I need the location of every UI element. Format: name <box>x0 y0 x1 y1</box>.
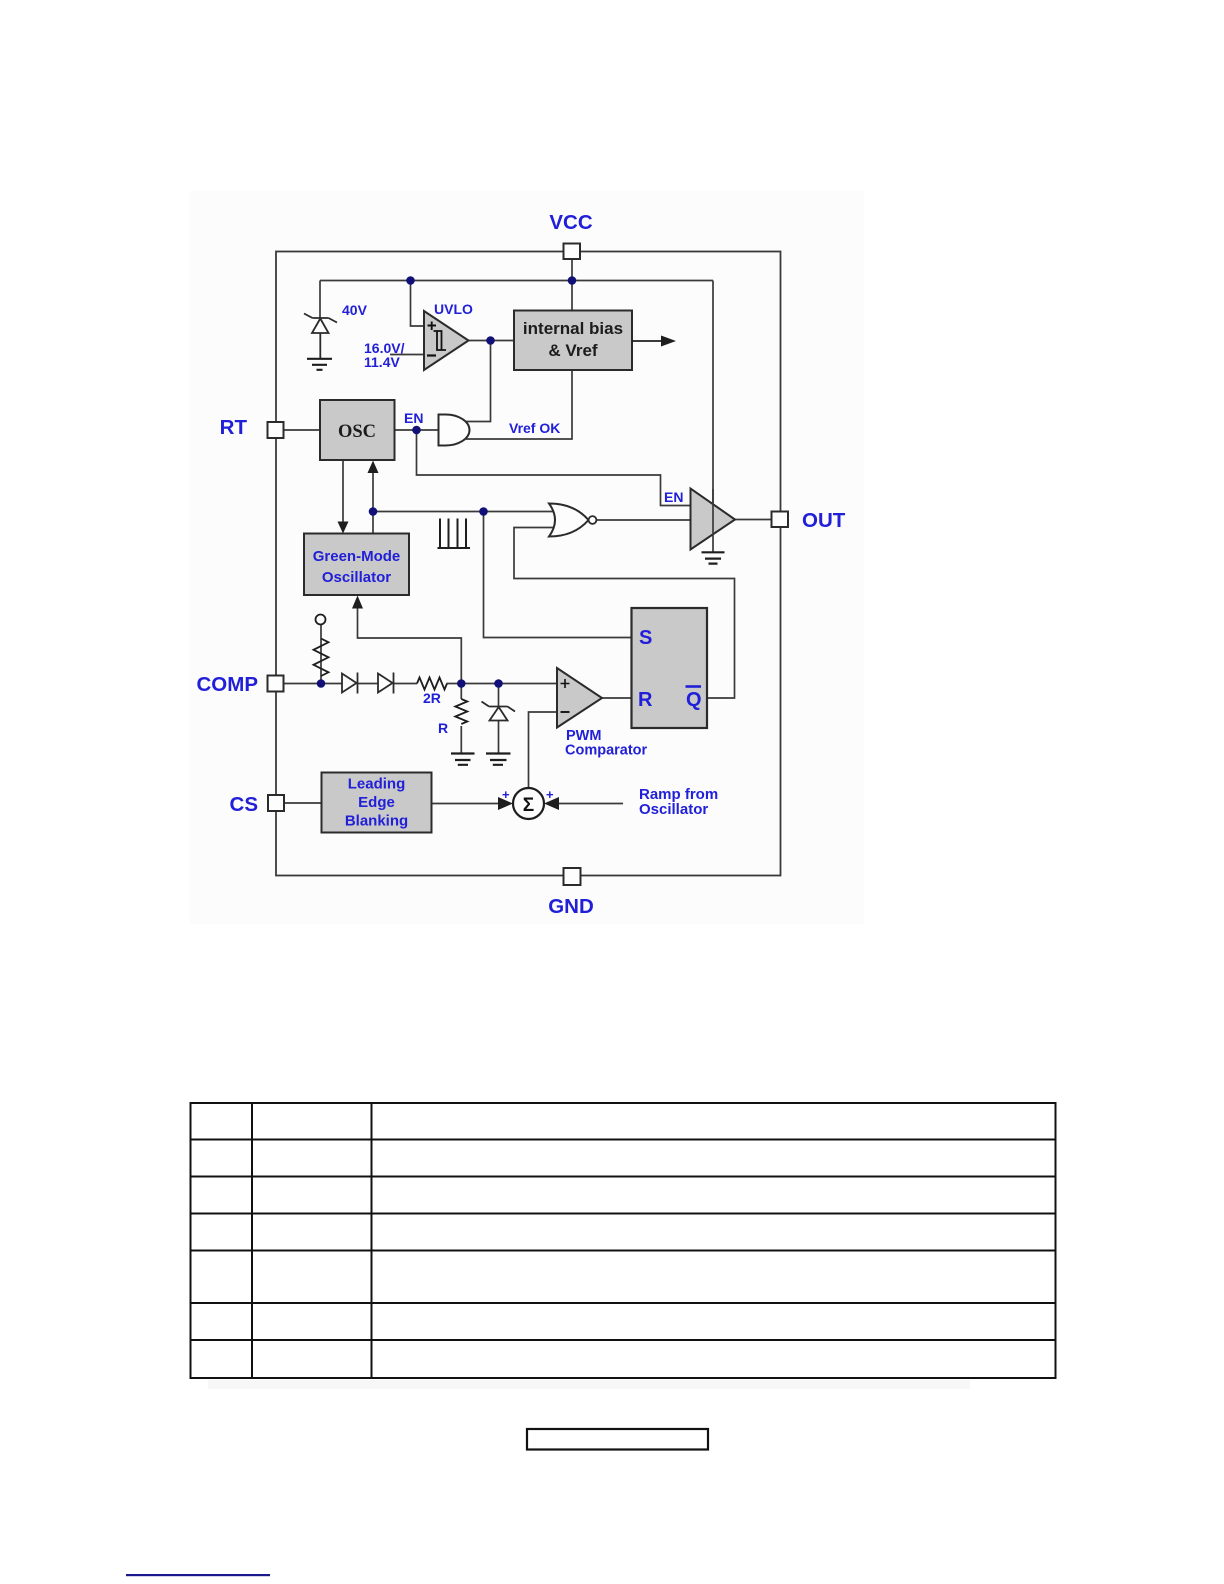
svg-text:S: S <box>639 627 652 649</box>
svg-text:Comparator: Comparator <box>565 743 648 759</box>
wire LEB output to summer <box>432 803 501 805</box>
footer rule <box>126 1574 270 1576</box>
wire NOR output to driver <box>597 519 691 521</box>
wire UVLO plus input <box>411 281 425 327</box>
wire diode to 2R <box>394 683 418 685</box>
node at zener/UVLO rail <box>406 276 415 285</box>
ground below driver <box>702 552 725 563</box>
internal bias & Vref block <box>514 311 632 371</box>
arrowhead into summer right <box>544 797 559 810</box>
pin COMP <box>197 673 284 696</box>
svg-text:11.4V: 11.4V <box>364 354 400 370</box>
summer sigma node <box>513 788 544 819</box>
svg-text:Q: Q <box>686 689 702 711</box>
wire 2R node to PWM plus input <box>447 683 558 685</box>
pin CS <box>230 793 284 816</box>
svg-text:OUT: OUT <box>802 509 846 532</box>
svg-text:EN: EN <box>664 489 683 505</box>
ground below 40V zener <box>307 359 332 370</box>
arrowhead OSC to green-mode <box>338 522 349 534</box>
wire node to latch S input <box>484 512 632 638</box>
wire clock node to NOR gate <box>373 511 556 513</box>
wire R resistor stems <box>460 684 462 754</box>
footer box <box>527 1429 708 1450</box>
wire driver ground stem <box>712 535 714 552</box>
pull-up terminal circle <box>316 615 326 625</box>
op-amp PWM comparator <box>557 668 602 728</box>
wire Qbar feedback to NOR input <box>514 528 735 699</box>
wire EN to output driver <box>417 430 691 506</box>
diode D2 <box>378 673 394 694</box>
wire comp pull-up stem <box>320 625 322 684</box>
pin GND <box>548 868 594 918</box>
resistor 2R <box>417 678 447 690</box>
wire node up to green-mode oscillator arrow <box>358 608 462 684</box>
AND gate (mirrored) <box>439 415 470 446</box>
svg-text:Leading: Leading <box>348 776 406 793</box>
svg-text:GND: GND <box>548 895 594 918</box>
ground below zener clamp <box>486 754 511 765</box>
svg-text:R: R <box>438 720 448 736</box>
pin RT <box>220 416 284 439</box>
Green-Mode Oscillator block <box>304 534 409 596</box>
svg-text:Green-Mode: Green-Mode <box>313 548 401 565</box>
svg-text:+: + <box>546 787 554 802</box>
svg-text:internal bias: internal bias <box>523 319 623 338</box>
op-amp UVLO comparator <box>424 311 469 370</box>
arrowhead into summer left <box>498 797 513 810</box>
wire ramp from oscillator to summer <box>558 803 623 805</box>
arrowhead into green-mode bottom <box>352 596 363 609</box>
wire UVLO output to bias box <box>469 340 515 342</box>
ground below R <box>451 754 475 765</box>
node 2R-R <box>457 679 466 688</box>
SR latch U2 <box>632 608 708 728</box>
junction dots <box>317 276 577 688</box>
svg-text:Vref OK: Vref OK <box>509 420 560 436</box>
node EN <box>412 426 421 435</box>
node zener clamp <box>494 679 503 688</box>
diagram background <box>190 191 864 924</box>
wire VCC top rail <box>320 259 713 535</box>
output driver buffer <box>691 489 736 550</box>
zener clamp diode <box>482 702 516 721</box>
OSC block <box>320 400 395 460</box>
svg-text:2R: 2R <box>423 690 441 706</box>
svg-text:Oscillator: Oscillator <box>322 569 391 586</box>
resistor R <box>455 699 467 724</box>
node clock right <box>479 507 488 516</box>
wire UVLO output down to AND gate <box>466 341 491 422</box>
wire OSC to green-mode oscillator <box>342 460 344 522</box>
diode D1 <box>342 673 358 694</box>
wire PWM minus input from summer <box>529 712 558 788</box>
wire zener clamp stems <box>498 684 500 754</box>
wire Vref OK <box>466 370 572 439</box>
zener diode 40V <box>304 314 337 359</box>
node at UVLO output <box>486 336 495 345</box>
wire RT to OSC <box>284 429 321 431</box>
svg-text:Oscillator: Oscillator <box>639 801 708 818</box>
wire diode link <box>358 683 379 685</box>
Leading Edge Blanking block <box>322 773 432 833</box>
wire CS to LEB <box>284 802 322 804</box>
node clock left <box>369 507 378 516</box>
wire zener 40V branch <box>319 281 321 319</box>
svg-text:Blanking: Blanking <box>345 813 408 830</box>
node COMP <box>317 679 326 688</box>
svg-text:40V: 40V <box>342 302 368 318</box>
NOR gate <box>549 504 596 537</box>
svg-text:OSC: OSC <box>338 422 376 442</box>
wire UVLO minus input <box>390 354 424 356</box>
svg-text:CS: CS <box>230 793 258 816</box>
pulse train symbol <box>438 519 471 549</box>
svg-text:UVLO: UVLO <box>434 301 473 317</box>
wire PWM output to latch R <box>602 697 632 699</box>
faint smudge under table <box>208 1380 970 1389</box>
svg-text:R: R <box>638 689 653 711</box>
wire OSC EN to AND gate <box>395 429 439 431</box>
svg-text:EN: EN <box>404 410 423 426</box>
arrowhead green-mode to OSC <box>368 461 379 474</box>
node at VCC rail <box>568 276 577 285</box>
svg-text:Edge: Edge <box>358 794 395 811</box>
pin description table <box>191 1103 1056 1378</box>
comp pull-up resistor <box>314 639 329 677</box>
pin OUT <box>772 509 846 532</box>
wire COMP input <box>284 683 343 685</box>
svg-text:VCC: VCC <box>549 211 592 234</box>
svg-text:Σ: Σ <box>523 795 534 816</box>
svg-text:RT: RT <box>220 416 248 439</box>
wire driver output to OUT pin <box>735 519 772 521</box>
wire green-mode oscillator to OSC <box>372 472 374 534</box>
svg-text:COMP: COMP <box>197 673 259 696</box>
svg-text:+: + <box>502 787 510 802</box>
arrow internal bias output <box>632 336 676 347</box>
pin VCC <box>549 211 592 259</box>
IC boundary rectangle <box>276 252 781 876</box>
svg-text:& Vref: & Vref <box>548 341 597 360</box>
